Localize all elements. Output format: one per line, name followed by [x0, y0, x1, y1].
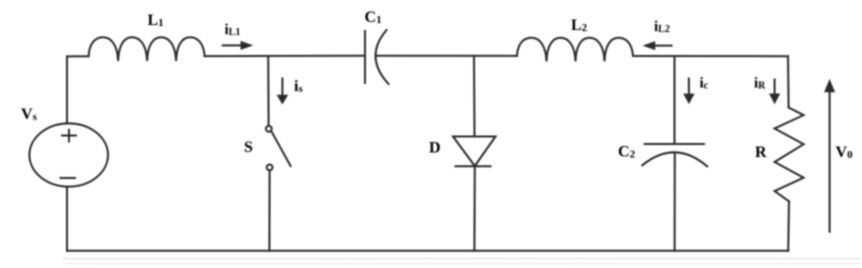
wire C2 branch upper [674, 56, 676, 144]
ghost rule line lower [66, 262, 861, 264]
wire C2 branch lower [674, 153, 676, 251]
minus sign of source [61, 177, 76, 179]
ghost rule line upper [62, 258, 861, 260]
bottom rail [67, 250, 788, 252]
wire resistor branch upper [787, 56, 790, 107]
svg-text:iR: iR [754, 76, 766, 92]
wire switch branch upper [267, 56, 269, 126]
wire left branch upper [66, 56, 68, 123]
voltage source Vs circle [29, 123, 108, 186]
wire top rail L1 to C1 [205, 55, 365, 57]
svg-text:V0: V0 [836, 144, 854, 161]
arrow is [281, 79, 283, 96]
switch S top contact [266, 126, 272, 132]
capacitor C2 curved bottom plate [642, 152, 707, 166]
arrow ic [688, 79, 690, 95]
arrow V0 [829, 91, 831, 232]
svg-text:C2: C2 [618, 143, 636, 160]
wire left branch lower [66, 187, 68, 251]
diode D triangle [453, 137, 496, 167]
wire diode branch lower [473, 166, 475, 251]
svg-text:D: D [429, 140, 441, 157]
inductor L2 [517, 38, 633, 62]
resistor R zigzag [775, 108, 804, 202]
wire top rail C1 to L2 [377, 55, 518, 57]
plus sign of source [62, 135, 76, 137]
svg-text:ic: ic [700, 76, 709, 92]
svg-text:Vs: Vs [21, 106, 38, 123]
inductor L1 [89, 37, 205, 61]
wire resistor branch lower [787, 201, 790, 250]
svg-text:L2: L2 [571, 17, 588, 34]
capacitor C1 left plate [364, 31, 366, 83]
svg-text:iL2: iL2 [654, 19, 670, 35]
svg-text:S: S [244, 139, 253, 156]
svg-text:C1: C1 [365, 9, 382, 26]
wire switch branch lower [268, 170, 270, 250]
capacitor C2 top plate [645, 143, 704, 145]
wire top-left segment [67, 55, 89, 57]
switch S bottom contact [267, 165, 273, 171]
svg-text:R: R [755, 144, 767, 161]
arrow iL2 [654, 45, 672, 47]
wire top rail L2 to top-right corner [633, 55, 788, 57]
arrow iR [774, 80, 776, 95]
diode D cathode bar [456, 165, 491, 167]
svg-text:iL1: iL1 [225, 22, 241, 38]
svg-text:is: is [294, 78, 303, 95]
switch S blade [271, 131, 290, 166]
capacitor C1 right curved plate [376, 30, 389, 84]
arrow iL1 [223, 44, 242, 46]
wire diode branch upper [473, 56, 476, 137]
svg-text:L1: L1 [148, 12, 164, 29]
